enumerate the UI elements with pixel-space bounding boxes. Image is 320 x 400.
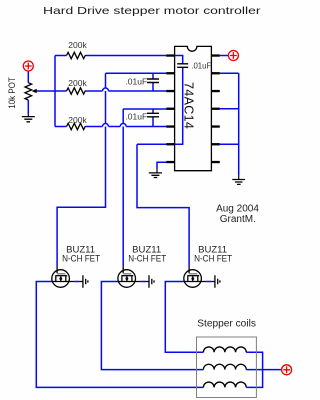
svg-text:Hard Drive stepper motor contr: Hard Drive stepper motor controller xyxy=(43,6,261,17)
svg-text:.01uF: .01uF xyxy=(191,62,211,71)
svg-text:200k: 200k xyxy=(68,40,87,50)
svg-text:.01uF: .01uF xyxy=(125,112,147,122)
svg-text:N-CH FET: N-CH FET xyxy=(62,253,100,263)
svg-text:GrantM.: GrantM. xyxy=(220,214,256,225)
svg-text:74AC14: 74AC14 xyxy=(182,82,196,129)
svg-text:N-CH FET: N-CH FET xyxy=(128,253,166,263)
svg-text:10k POT: 10k POT xyxy=(7,77,18,109)
svg-text:Stepper coils: Stepper coils xyxy=(197,319,256,330)
svg-text:.01uF: .01uF xyxy=(125,77,147,87)
svg-text:N-CH FET: N-CH FET xyxy=(194,253,232,263)
svg-text:200k: 200k xyxy=(68,78,87,88)
svg-text:200k: 200k xyxy=(68,115,87,125)
